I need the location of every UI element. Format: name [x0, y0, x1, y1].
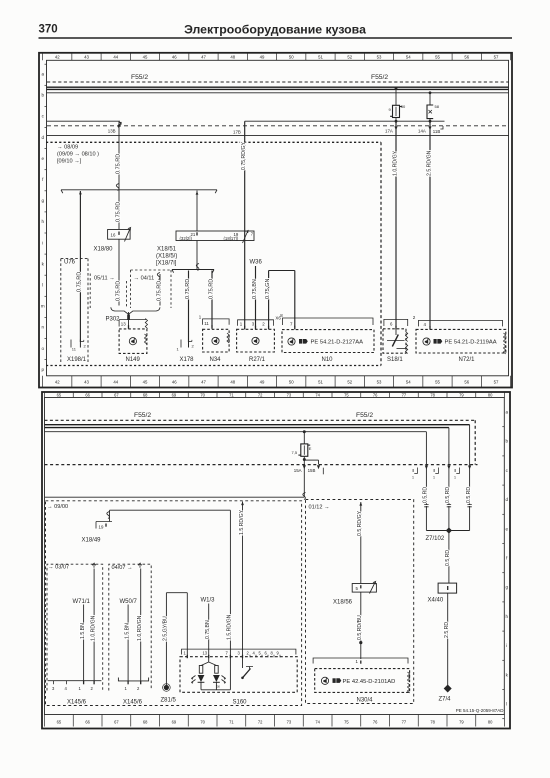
wire 1.0 RD/GN in 04/07 — [140, 569, 142, 681]
svg-text:0.5 RD/BU: 0.5 RD/BU — [357, 615, 363, 640]
svg-text:0.75 RD: 0.75 RD — [77, 272, 83, 292]
svg-text:67: 67 — [114, 720, 119, 725]
svg-text:65: 65 — [57, 720, 62, 725]
fuse f2 — [427, 105, 433, 119]
svg-text:75: 75 — [344, 393, 349, 398]
bus line 3 — [45, 431, 427, 433]
svg-text:2: 2 — [247, 651, 250, 656]
svg-text:53: 53 — [377, 55, 382, 60]
svg-text:4: 4 — [424, 322, 427, 327]
svg-text:7: 7 — [290, 322, 293, 327]
svg-text:7: 7 — [226, 651, 229, 656]
svg-text:48: 48 — [230, 380, 235, 385]
svg-text:(18[17]): (18[17]) — [224, 236, 239, 241]
svg-text:2.5 GY/BU: 2.5 GY/BU — [163, 616, 169, 641]
svg-text:W36: W36 — [250, 260, 263, 266]
wire 0.5 RD at x=426.4 — [425, 432, 427, 505]
svg-text:51: 51 — [318, 380, 323, 385]
svg-text:0.75 RD: 0.75 RD — [115, 202, 121, 222]
svg-text:70: 70 — [200, 720, 205, 725]
svg-text:1.5 BN: 1.5 BN — [124, 623, 130, 639]
svg-text:1: 1 — [240, 322, 243, 327]
svg-text:Z7/4: Z7/4 — [439, 697, 452, 703]
svg-text:69: 69 — [172, 720, 177, 725]
svg-text:46: 46 — [172, 55, 177, 60]
svg-text:R27/1: R27/1 — [249, 357, 266, 363]
wire 13B vertical with up arrow — [118, 121, 120, 229]
svg-text:43: 43 — [84, 380, 89, 385]
svg-text:PE 54.21-D-2127AA: PE 54.21-D-2127AA — [311, 340, 364, 346]
svg-text:0.5 RD/GY: 0.5 RD/GY — [357, 510, 363, 536]
svg-text:14A: 14A — [418, 128, 426, 133]
svg-text:0.5 RD: 0.5 RD — [445, 550, 451, 566]
R27/1 connector bracket — [238, 320, 274, 326]
svg-text:01/12 →: 01/12 → — [309, 504, 330, 510]
svg-text:[09/10 →]: [09/10 →] — [57, 159, 82, 165]
svg-text:55: 55 — [435, 55, 440, 60]
svg-text:76: 76 — [373, 393, 378, 398]
wire to R27/1 pin2 — [268, 271, 270, 327]
svg-text:13: 13 — [121, 321, 126, 326]
connector X145/8 — [118, 678, 148, 681]
svg-text:2: 2 — [84, 344, 87, 349]
svg-text:W1/3: W1/3 — [201, 598, 216, 604]
svg-text:S160: S160 — [233, 700, 248, 706]
svg-text:79: 79 — [459, 393, 464, 398]
svg-text:g: g — [41, 198, 44, 203]
svg-text:45: 45 — [143, 380, 148, 385]
svg-text:X145/6: X145/6 — [67, 700, 87, 706]
svg-text:PE 54.21-D-2119AA: PE 54.21-D-2119AA — [445, 340, 497, 346]
svg-text:52: 52 — [347, 380, 352, 385]
option dashed line — [45, 464, 478, 466]
svg-text:N34: N34 — [210, 357, 222, 363]
switch S18/1 dashed box — [383, 329, 406, 353]
svg-text:1: 1 — [184, 651, 187, 656]
merge bracket to P302 — [111, 307, 160, 314]
svg-text:Электрооборудование кузова: Электрооборудование кузова — [184, 22, 366, 36]
fuse f1 — [393, 105, 400, 117]
svg-text:0.5 RD: 0.5 RD — [423, 487, 429, 503]
fuse f2 wire from bus — [429, 91, 432, 94]
svg-text:N72/1: N72/1 — [459, 357, 476, 363]
wire Z7/102 to X4/40 — [448, 531, 450, 584]
svg-text:1.0 RD/GN: 1.0 RD/GN — [137, 615, 143, 641]
connector X145/6 — [48, 680, 102, 682]
svg-text:X178: X178 — [180, 357, 195, 363]
wire bar1 to X18/51 — [196, 191, 198, 232]
svg-text:1: 1 — [433, 476, 435, 480]
bus line 1 — [45, 424, 470, 426]
svg-text:0.75 RD: 0.75 RD — [208, 279, 214, 299]
svg-text:72: 72 — [258, 720, 263, 725]
wire 17B to R27/1 pin1 — [244, 121, 246, 326]
wire 0.5 RD at x=448.9 — [448, 428, 450, 505]
svg-text:6: 6 — [390, 321, 393, 326]
svg-text:49: 49 — [260, 380, 265, 385]
branch 15B — [304, 459, 318, 461]
svg-text:N10: N10 — [322, 357, 334, 363]
svg-text:p: p — [41, 367, 44, 372]
svg-text:e: e — [41, 156, 44, 161]
svg-text:1: 1 — [177, 347, 180, 352]
svg-text:(X18/5/): (X18/5/) — [156, 254, 177, 260]
svg-text:76: 76 — [373, 720, 378, 725]
svg-text:73: 73 — [287, 720, 292, 725]
svg-text:3: 3 — [238, 651, 241, 656]
svg-text:52: 52 — [347, 55, 352, 60]
svg-text:5: 5 — [259, 651, 262, 656]
wire 0.5 RD/GY to X18/56 — [360, 502, 362, 584]
bottom diagram coordinate rulers — [44, 392, 46, 398]
fuse f3 — [301, 444, 308, 456]
wire to N34 — [211, 271, 213, 327]
svg-text:Z7/102: Z7/102 — [426, 536, 445, 542]
control unit N30/4 dashed box — [315, 669, 410, 693]
svg-text:→ 09/00: → 09/00 — [47, 504, 68, 510]
svg-text:11: 11 — [72, 347, 77, 352]
svg-text:73: 73 — [287, 393, 292, 398]
svg-text:d: d — [41, 135, 44, 140]
S18/1 connector bracket — [384, 319, 408, 326]
svg-text:42: 42 — [55, 380, 60, 385]
svg-text:8: 8 — [280, 313, 283, 318]
svg-text:F55/2: F55/2 — [131, 74, 148, 81]
connector X18/80 box — [108, 230, 131, 240]
svg-text:(09/09 → 08/10 ): (09/09 → 08/10 ) — [57, 152, 99, 158]
svg-text:56: 56 — [464, 55, 469, 60]
bus line 2 — [45, 427, 449, 429]
svg-text:13: 13 — [203, 651, 208, 656]
svg-text:0.75 RD/GY: 0.75 RD/GY — [241, 141, 247, 170]
svg-text:h: h — [41, 219, 44, 224]
big option box right dashed — [380, 142, 382, 365]
svg-text:0.75 RD: 0.75 RD — [115, 281, 121, 301]
svg-text:PE 54.15-Q-2059-87AD: PE 54.15-Q-2059-87AD — [456, 708, 505, 713]
bus bar 30 double line — [47, 86, 509, 88]
svg-text:57: 57 — [494, 55, 499, 60]
svg-text:47: 47 — [201, 380, 206, 385]
svg-text:2: 2 — [91, 686, 94, 691]
svg-text:i: i — [42, 240, 43, 245]
svg-text:74: 74 — [315, 393, 320, 398]
wire 0.75 RD in 05/11 — [118, 239, 120, 305]
wire 15A down — [303, 460, 305, 493]
svg-text:a: a — [41, 72, 44, 77]
svg-text:W71/1: W71/1 — [73, 599, 91, 605]
svg-text:c: c — [42, 114, 45, 119]
svg-text:1.5 RD/GN: 1.5 RD/GN — [227, 614, 233, 640]
svg-text:U76: U76 — [64, 260, 76, 266]
svg-text:→ 08/09: → 08/09 — [57, 145, 78, 151]
control unit N72/1 dashed box — [416, 329, 506, 353]
svg-text:1.5 BN: 1.5 BN — [80, 623, 86, 639]
svg-text:11: 11 — [204, 321, 209, 326]
switch unit S160 bracket — [182, 649, 296, 654]
circuit 13B line — [47, 120, 120, 122]
connector X198/1 pins — [70, 340, 72, 348]
svg-text:g: g — [506, 585, 509, 590]
svg-text:78: 78 — [430, 393, 435, 398]
svg-text:X18/49: X18/49 — [82, 538, 102, 544]
ground wire Z81/5 — [166, 592, 187, 594]
svg-text:54: 54 — [406, 55, 411, 60]
svg-text:d: d — [506, 497, 509, 502]
svg-text:F55/2: F55/2 — [356, 412, 373, 419]
S160 dashed box — [180, 657, 297, 693]
svg-text:72: 72 — [258, 393, 263, 398]
top diagram coordinate rulers — [42, 53, 44, 61]
svg-text:80: 80 — [488, 393, 493, 398]
wire W36 to R27/1 pin3 — [255, 266, 257, 327]
svg-text:69: 69 — [172, 393, 177, 398]
svg-text:370: 370 — [39, 24, 58, 36]
bottom diagram inner frame — [45, 398, 505, 715]
version box 03/07 — [47, 564, 103, 690]
version box 05/11 — [89, 274, 91, 309]
wire X18/51 to bar2 — [196, 241, 198, 270]
fuse box right dashed edge — [474, 420, 476, 464]
svg-text:56: 56 — [464, 380, 469, 385]
relay N149 dashed box — [119, 329, 147, 354]
svg-text:n: n — [41, 325, 44, 330]
svg-text:55: 55 — [435, 380, 440, 385]
svg-text:44: 44 — [113, 55, 118, 60]
svg-text:1e: 1e — [216, 685, 220, 689]
svg-text:PE 42.45-D-2101AD: PE 42.45-D-2101AD — [343, 679, 396, 685]
svg-text:15B: 15B — [308, 468, 316, 473]
svg-text:2.5 RD/GN: 2.5 RD/GN — [426, 150, 432, 176]
svg-text:11B: 11B — [433, 129, 441, 134]
svg-text:1: 1 — [125, 686, 128, 691]
svg-text:19: 19 — [99, 525, 104, 530]
svg-text:17A: 17A — [385, 128, 393, 133]
svg-text:2.5 RD: 2.5 RD — [444, 622, 450, 638]
svg-text:0.75 RD: 0.75 RD — [185, 279, 191, 299]
wire 1.5 RD/GY to S160 — [242, 502, 244, 656]
control unit N34 dashed box — [203, 329, 230, 352]
svg-text:78: 78 — [430, 720, 435, 725]
wire 0.75 RD in 04/11 — [159, 274, 161, 306]
wire X4/40 to ground — [447, 593, 449, 686]
svg-text:X18/80: X18/80 — [94, 247, 114, 253]
svg-text:05/11 →: 05/11 → — [94, 276, 115, 282]
X18/49 connector — [96, 522, 112, 529]
ground point Z7/4 — [444, 685, 452, 693]
svg-text:51: 51 — [318, 55, 323, 60]
svg-text:X4/40: X4/40 — [428, 598, 444, 604]
svg-text:0.75 BN: 0.75 BN — [205, 620, 211, 639]
svg-text:→ 04/11: → 04/11 — [134, 276, 155, 282]
version box 01/12 — [306, 500, 414, 704]
svg-text:1: 1 — [356, 659, 359, 664]
svg-text:m: m — [41, 304, 45, 309]
svg-text:75: 75 — [344, 720, 349, 725]
version box 09/00 — [46, 501, 302, 706]
svg-text:70: 70 — [200, 393, 205, 398]
svg-text:0.75 RD: 0.75 RD — [115, 154, 121, 174]
option dashed line — [47, 125, 509, 127]
svg-text:(32[2]): (32[2]) — [180, 236, 193, 241]
svg-text:45: 45 — [143, 55, 148, 60]
svg-text:57: 57 — [494, 380, 499, 385]
svg-text:7: 7 — [251, 231, 254, 236]
svg-text:k: k — [506, 672, 509, 677]
X18/49 loop wire — [109, 510, 111, 521]
svg-text:l: l — [42, 283, 43, 288]
svg-text:[X18/7i]: [X18/7i] — [156, 261, 177, 267]
svg-text:1.0 RD/GY: 1.0 RD/GY — [392, 150, 398, 176]
wire 1.5 RD/GN down to S160 pin7 — [229, 510, 231, 656]
svg-text:0.5 RD: 0.5 RD — [445, 487, 451, 503]
svg-text:0.75 BN: 0.75 BN — [252, 279, 258, 299]
top diagram inner frame — [47, 60, 509, 376]
wire to S18/1 — [395, 121, 397, 327]
svg-text:49: 49 — [260, 55, 265, 60]
svg-text:l: l — [506, 702, 507, 707]
thin solid line — [47, 135, 509, 137]
svg-text:k: k — [42, 261, 45, 266]
loom bar 1 — [61, 189, 217, 191]
svg-text:X18/56: X18/56 — [333, 600, 353, 606]
svg-text:17B: 17B — [233, 130, 241, 135]
fuse f1 wire from bus — [395, 87, 398, 90]
svg-text:b: b — [506, 439, 509, 444]
svg-text:N149: N149 — [126, 357, 141, 363]
fuse f3 tap — [303, 430, 306, 433]
svg-text:54: 54 — [406, 380, 411, 385]
svg-text:X198/1: X198/1 — [67, 357, 87, 363]
svg-text:9: 9 — [389, 107, 392, 112]
N30/4 connector bracket — [313, 658, 408, 664]
main wire horizontal — [45, 496, 305, 498]
svg-text:1: 1 — [199, 315, 202, 320]
svg-text:80: 80 — [488, 720, 493, 725]
splice P302 — [128, 312, 130, 327]
svg-text:66: 66 — [85, 393, 90, 398]
U76 dashed box — [60, 259, 62, 364]
svg-text:X145/6: X145/6 — [123, 700, 143, 706]
circuit 17B line — [245, 120, 445, 122]
wire to N72/1 — [429, 121, 431, 326]
svg-text:c: c — [506, 468, 509, 473]
svg-text:Z81/5: Z81/5 — [161, 698, 177, 704]
svg-text:1: 1 — [412, 476, 414, 480]
bottom diagram outer frame — [42, 392, 510, 729]
svg-text:68: 68 — [143, 393, 148, 398]
svg-text:0.5 RD: 0.5 RD — [466, 487, 472, 503]
wire 0.5 RD at x=469.6 — [469, 425, 471, 505]
svg-text:W50/7: W50/7 — [120, 599, 138, 605]
svg-text:71: 71 — [229, 720, 234, 725]
svg-text:h: h — [506, 614, 509, 619]
svg-text:f: f — [42, 177, 44, 182]
svg-text:67: 67 — [114, 393, 119, 398]
svg-text:F55/2: F55/2 — [134, 412, 151, 419]
connector X178 pins — [180, 340, 182, 348]
wire X18/56 to N30/4 — [360, 592, 362, 659]
svg-text:9: 9 — [277, 651, 280, 656]
svg-text:77: 77 — [402, 393, 407, 398]
big option box bottom dotted — [46, 365, 381, 367]
svg-text:04/07 →: 04/07 → — [112, 565, 133, 571]
svg-text:13B: 13B — [108, 129, 116, 134]
svg-text:X18/51: X18/51 — [157, 247, 177, 253]
svg-text:1: 1 — [454, 476, 456, 480]
svg-text:6: 6 — [265, 651, 268, 656]
svg-text:→ 03/07: → 03/07 — [48, 564, 69, 570]
svg-text:44: 44 — [113, 380, 118, 385]
svg-text:o: o — [41, 346, 44, 351]
ground point Z81/5 — [164, 685, 169, 690]
svg-text:E: E — [309, 446, 312, 451]
connector X4/40 — [438, 583, 457, 593]
junction Z7/102 — [426, 530, 469, 532]
wire X6 to N10 — [269, 270, 295, 272]
connector X18/56 — [352, 584, 376, 593]
resistor R27/1 dashed box — [237, 329, 275, 352]
svg-text:74: 74 — [315, 720, 320, 725]
svg-text:77: 77 — [402, 720, 407, 725]
svg-text:15A: 15A — [294, 468, 302, 473]
svg-text:S18/1: S18/1 — [387, 357, 403, 363]
svg-text:P302: P302 — [106, 317, 121, 323]
svg-text:4: 4 — [253, 651, 256, 656]
svg-text:5: 5 — [356, 586, 359, 591]
svg-text:43: 43 — [84, 55, 89, 60]
big option box top dotted — [46, 141, 381, 143]
svg-text:66: 66 — [85, 720, 90, 725]
svg-text:42: 42 — [55, 55, 60, 60]
svg-text:71: 71 — [229, 393, 234, 398]
version box 04/07 — [109, 564, 151, 690]
wire to X198/1 — [79, 191, 81, 342]
svg-text:53: 53 — [377, 380, 382, 385]
version box 04/11 — [130, 270, 132, 308]
svg-text:1.0 RD/GN: 1.0 RD/GN — [90, 615, 96, 641]
svg-text:68: 68 — [143, 720, 148, 725]
loom bar 2 (X18/51) — [172, 269, 214, 271]
fuse box dashed line — [47, 81, 509, 83]
connector X18/51 box — [176, 231, 254, 241]
svg-text:50: 50 — [289, 55, 294, 60]
svg-text:47: 47 — [201, 55, 206, 60]
svg-text:79: 79 — [459, 720, 464, 725]
svg-text:7,5: 7,5 — [292, 450, 298, 455]
top diagram outer frame — [39, 53, 512, 388]
S160 LED circuit — [208, 656, 210, 662]
svg-text:16: 16 — [111, 233, 116, 238]
bus bar single line — [47, 92, 509, 94]
control unit N10 dashed box — [282, 330, 374, 353]
svg-text:58: 58 — [435, 104, 440, 109]
svg-text:50: 50 — [289, 380, 294, 385]
svg-text:f: f — [506, 556, 508, 561]
svg-text:0.75 RD: 0.75 RD — [156, 281, 162, 301]
svg-text:48: 48 — [230, 55, 235, 60]
svg-text:a: a — [506, 410, 509, 415]
svg-text:0.75 GN: 0.75 GN — [265, 278, 271, 299]
svg-text:3: 3 — [252, 322, 255, 327]
wire to X178 — [188, 271, 190, 343]
svg-text:i: i — [506, 643, 507, 648]
svg-text:3: 3 — [52, 686, 55, 691]
svg-text:e: e — [506, 526, 509, 531]
S160 switch contact — [242, 656, 244, 668]
svg-text:2: 2 — [262, 322, 265, 327]
svg-text:1: 1 — [79, 686, 82, 691]
footnote hooks — [413, 468, 417, 474]
